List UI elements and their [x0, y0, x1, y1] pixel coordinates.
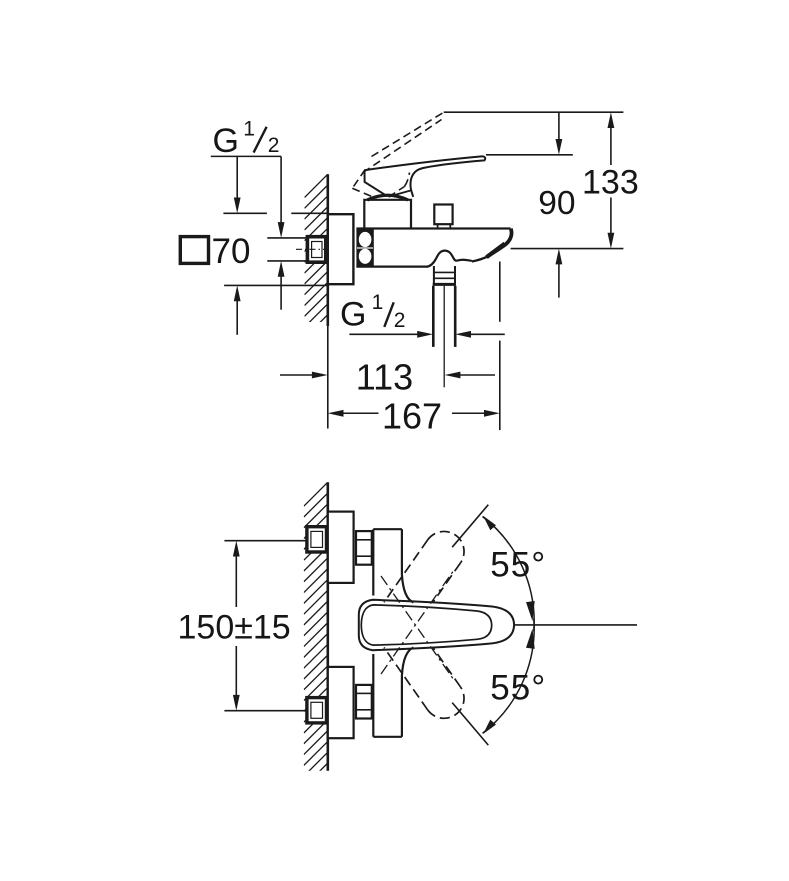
label underline [211, 155, 281, 157]
dim extension line x=237 (70) [236, 156, 238, 208]
svg-text:70: 70 [212, 232, 251, 271]
wall face line (bottom view) [326, 482, 329, 771]
svg-text:2: 2 [268, 134, 280, 157]
svg-text:90: 90 [538, 185, 575, 222]
svg-text:55°: 55° [490, 546, 546, 585]
arrowheads left dims [234, 198, 285, 302]
upper union nut [356, 531, 372, 565]
wall face extension line down to 167 dim [327, 326, 329, 429]
dashed capsule (upper 55deg) [384, 531, 464, 602]
svg-text:150±15: 150±15 [178, 608, 291, 646]
dash-dot centerline of supply [296, 248, 328, 250]
spout outlet extension line [499, 262, 501, 322]
upper escutcheon [328, 512, 354, 583]
svg-text:113: 113 [356, 356, 413, 397]
upper supply square [307, 527, 327, 552]
lever underside inner line [389, 191, 411, 197]
escutcheon top extension line [223, 212, 267, 214]
svg-text:1: 1 [243, 117, 255, 140]
dashed raised lever [352, 113, 443, 198]
55deg arc (upper) [483, 517, 535, 632]
aerator slot (thick slanted line) [487, 244, 505, 258]
label square-70 [180, 237, 208, 264]
dash-dot capsule axes crossing at pivot [381, 570, 454, 680]
dim 133 (inside arrows) [610, 117, 612, 165]
lower union nut [356, 685, 372, 719]
dim 167 (inside arrows) [341, 412, 379, 414]
arrowheads upper arc [483, 516, 535, 622]
lever base dome arc [367, 195, 408, 200]
shower hose walls [432, 286, 435, 347]
faucet body bottom edge [356, 266, 427, 268]
lever handle (solid) [365, 156, 486, 197]
supply elbow square in wall [307, 237, 325, 263]
lever inner outline [361, 605, 491, 645]
dim extension line x=281 (G1/2) [280, 156, 282, 232]
spout outlet curve (thick) [489, 229, 511, 256]
svg-text:167: 167 [382, 396, 442, 437]
lever back edge [365, 170, 387, 195]
lower supply square [307, 698, 327, 723]
escutcheon flange (top view) [328, 214, 354, 284]
svg-text:G: G [340, 296, 366, 334]
dim 90 (outside arrows) [558, 112, 560, 150]
spout bottom reference line [511, 248, 624, 250]
svg-text:1: 1 [372, 291, 384, 314]
wall hatch (top view) [305, 174, 328, 338]
svg-text:G: G [213, 122, 239, 160]
svg-text:133: 133 [582, 164, 639, 202]
spout lower hook [472, 256, 489, 262]
svg-text:55°: 55° [490, 669, 546, 708]
escutcheon bottom extension line [224, 284, 328, 286]
S-union nut (cross-section, dark) [356, 229, 373, 268]
dashed capsule (lower 55deg) [384, 648, 464, 719]
hose G1/2 dim arrows [349, 333, 425, 335]
lower escutcheon [328, 667, 354, 738]
body (bottom view) [372, 529, 374, 595]
55deg leg (lower) [452, 703, 488, 746]
wall face line (top view) [326, 174, 329, 326]
body-to-lever fillets [402, 575, 414, 603]
hose dome hump on body underside [427, 251, 472, 267]
hose centerline extension [443, 286, 445, 388]
lever top reference line [486, 154, 573, 156]
shower hose connector collar [433, 266, 435, 284]
cartridge housing block [364, 200, 411, 229]
faucet body (top view) top edge [356, 227, 510, 229]
label G 1/2 (middle) [340, 291, 405, 333]
dim 113 (outside arrows) [280, 374, 312, 376]
svg-text:2: 2 [394, 309, 406, 332]
55deg arc (lower) [483, 618, 535, 733]
wall hatch (bottom view) [304, 482, 328, 787]
dim 150+-15 [224, 540, 307, 542]
55deg leg (upper) [452, 505, 488, 548]
lever outer outline (bottom view) [359, 600, 514, 650]
arrowheads lower arc [483, 629, 535, 735]
raised lever reference line (top) [444, 111, 624, 113]
supply pipe lines (left of wall) [267, 237, 307, 239]
horizontal center reference line (right) [515, 624, 637, 626]
diverter knob [434, 205, 452, 225]
label G 1/2 (top left) [213, 117, 280, 159]
